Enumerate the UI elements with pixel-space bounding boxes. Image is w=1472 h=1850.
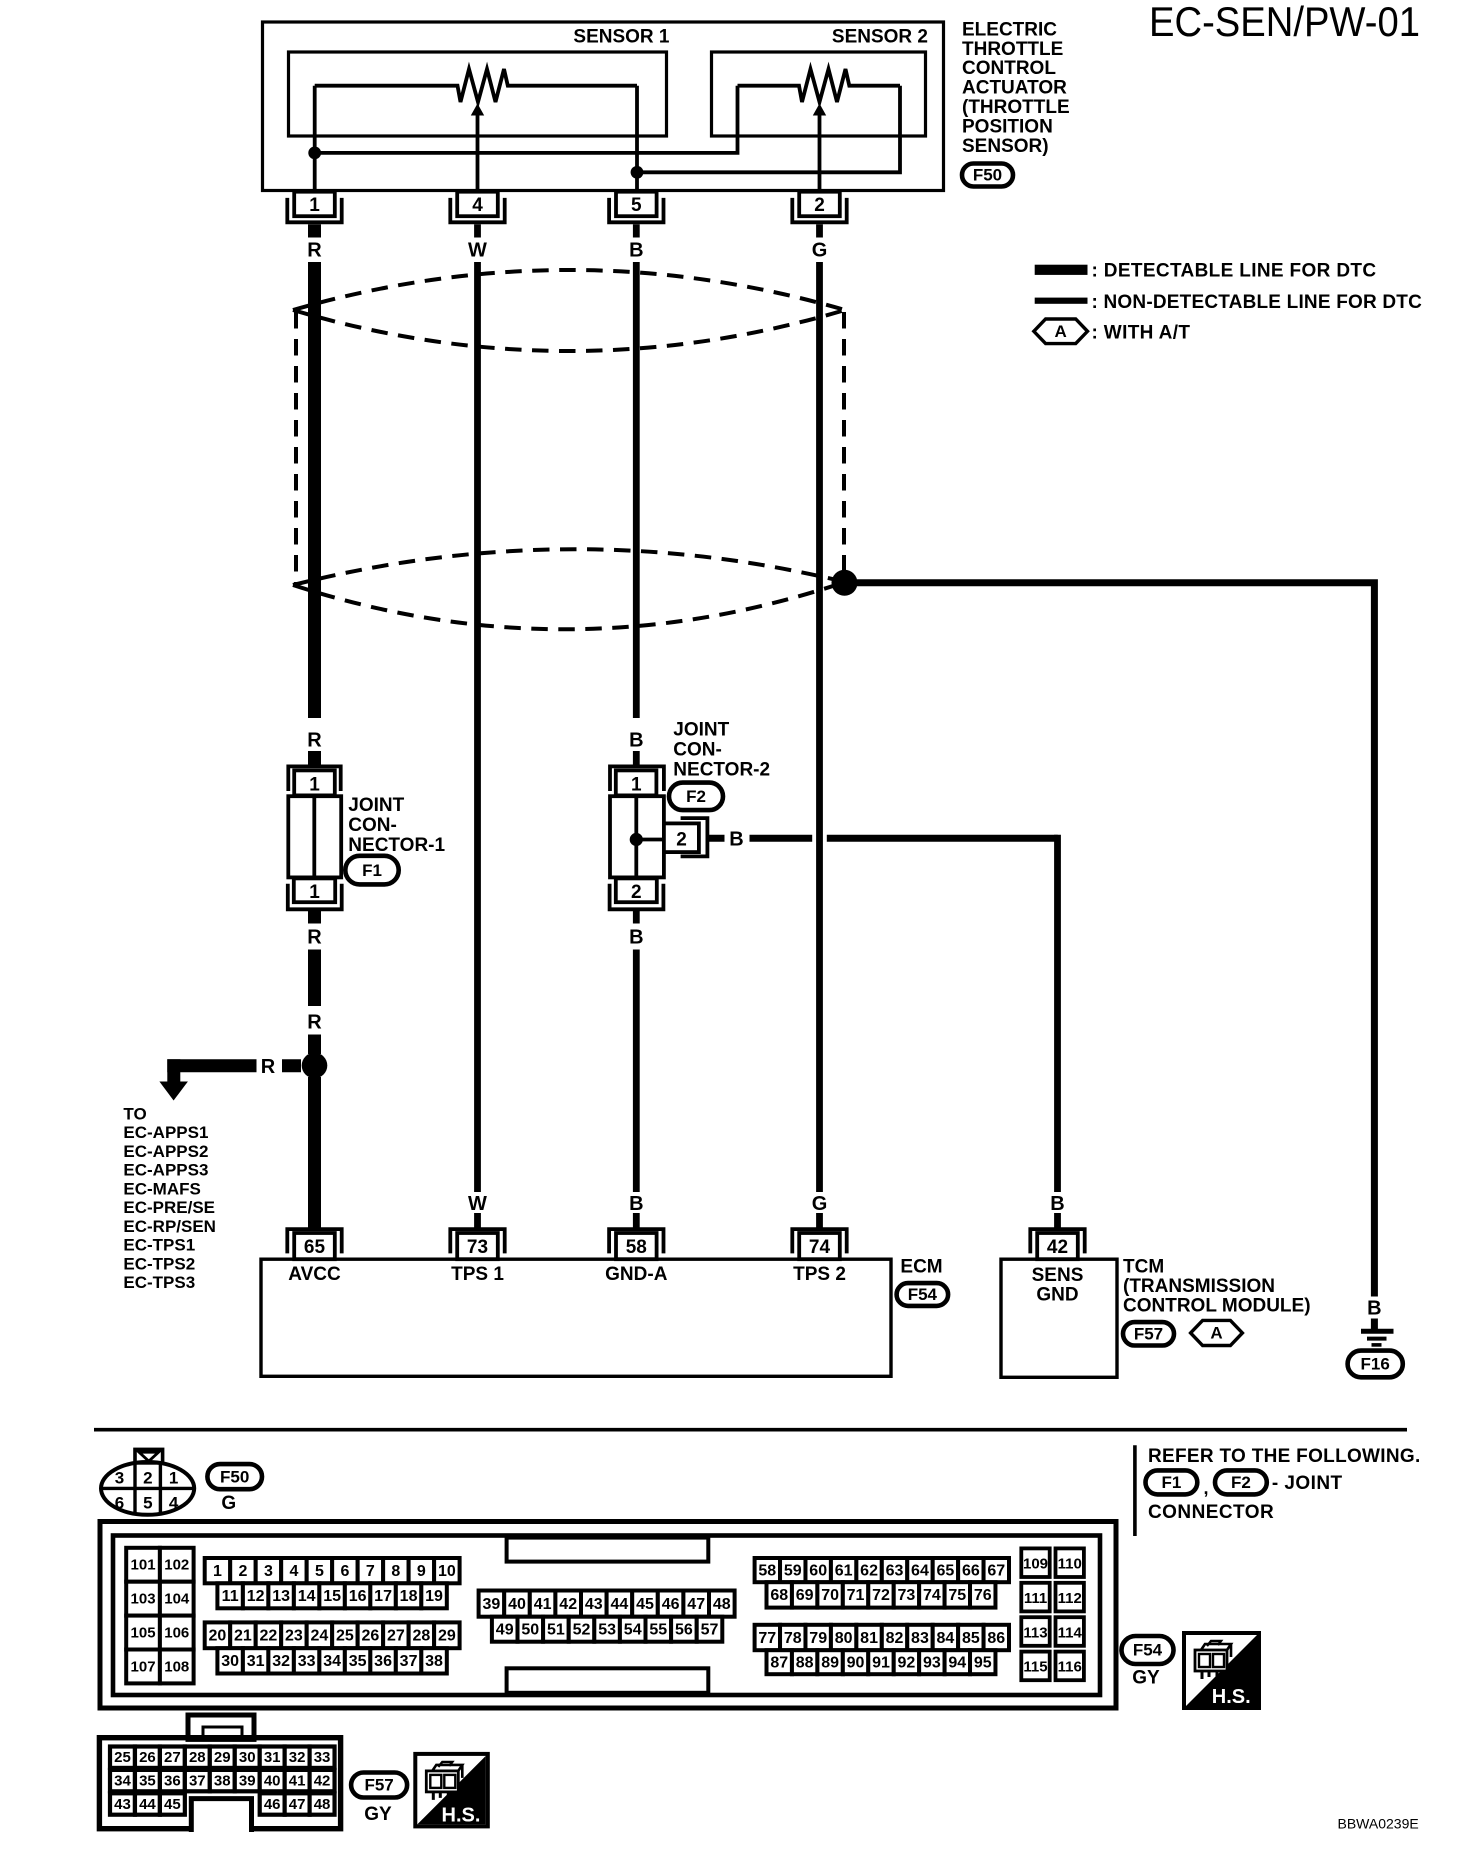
- svg-text:CONNECTOR: CONNECTOR: [1148, 1502, 1274, 1523]
- with A/T hexagon: [1191, 1320, 1243, 1345]
- F54 connector inner box: [113, 1536, 1100, 1696]
- svg-text:R: R: [307, 1011, 322, 1033]
- svg-text:4: 4: [169, 1493, 179, 1512]
- pin 65: [287, 1229, 341, 1253]
- svg-text:,: ,: [1204, 1478, 1209, 1498]
- svg-text:F1: F1: [1161, 1473, 1181, 1492]
- svg-text:SENSOR 1: SENSOR 1: [573, 27, 670, 48]
- F50 connector face: [135, 1449, 163, 1463]
- svg-text:NECTOR-2: NECTOR-2: [673, 759, 770, 780]
- svg-text:92: 92: [898, 1655, 916, 1672]
- wire B ground stub: [1371, 1319, 1378, 1332]
- svg-text:EC-RP/SEN: EC-RP/SEN: [123, 1217, 216, 1236]
- shield bottom ellipse: [293, 549, 845, 585]
- svg-text:EC-APPS2: EC-APPS2: [123, 1142, 208, 1161]
- svg-text:84: 84: [937, 1630, 955, 1647]
- svg-text:- JOINT: - JOINT: [1272, 1473, 1343, 1494]
- svg-text:F57: F57: [1134, 1325, 1163, 1344]
- svg-text:15: 15: [323, 1588, 341, 1605]
- joint connector-2 top bracket: [610, 766, 664, 791]
- connector ref F54 view: [1122, 1636, 1174, 1664]
- svg-text:R: R: [307, 927, 322, 949]
- joint connector-2 junction dot: [630, 833, 643, 846]
- svg-text:31: 31: [264, 1749, 281, 1766]
- svg-text:CON-: CON-: [673, 739, 722, 760]
- svg-text:45: 45: [636, 1596, 654, 1613]
- svg-text:47: 47: [687, 1596, 705, 1613]
- svg-text:B: B: [1050, 1193, 1064, 1215]
- svg-text:27: 27: [164, 1749, 181, 1766]
- svg-text:76: 76: [974, 1587, 992, 1604]
- svg-text:63: 63: [886, 1562, 904, 1579]
- svg-text:13: 13: [272, 1588, 290, 1605]
- svg-text:2: 2: [631, 882, 642, 903]
- wiper arrow sensor 1: [471, 104, 484, 116]
- connector ref F2 note: [1215, 1470, 1267, 1494]
- svg-text:5: 5: [143, 1493, 152, 1512]
- svg-text:25: 25: [114, 1749, 131, 1766]
- svg-text:G: G: [812, 1193, 828, 1215]
- svg-text:3: 3: [115, 1469, 124, 1488]
- svg-text:35: 35: [349, 1653, 367, 1670]
- svg-text:34: 34: [323, 1653, 341, 1670]
- svg-text:TO: TO: [123, 1104, 146, 1123]
- svg-text:CON-: CON-: [348, 815, 397, 836]
- F54 top notch: [507, 1538, 709, 1562]
- svg-text:A: A: [1055, 322, 1067, 341]
- electric throttle control actuator box: [263, 22, 944, 191]
- svg-text:82: 82: [886, 1630, 904, 1647]
- svg-text:8: 8: [391, 1563, 400, 1580]
- svg-text:F2: F2: [1231, 1473, 1251, 1492]
- F54 pins 49-57: [492, 1617, 518, 1642]
- joint connector-2 side bracket: [681, 818, 708, 856]
- svg-text:37: 37: [400, 1653, 418, 1670]
- svg-text:49: 49: [496, 1622, 514, 1639]
- svg-text:112: 112: [1058, 1590, 1082, 1607]
- svg-text:EC-TPS1: EC-TPS1: [123, 1236, 195, 1255]
- svg-text:41: 41: [289, 1773, 306, 1790]
- svg-text:68: 68: [770, 1587, 788, 1604]
- svg-text:EC-TPS3: EC-TPS3: [123, 1273, 195, 1292]
- svg-text:53: 53: [598, 1622, 616, 1639]
- svg-text:107: 107: [131, 1658, 156, 1675]
- svg-text:CONTROL MODULE): CONTROL MODULE): [1123, 1295, 1311, 1316]
- F54 pins 68-76: [767, 1582, 792, 1607]
- svg-text:74: 74: [809, 1237, 831, 1258]
- svg-text:44: 44: [611, 1596, 629, 1613]
- F57 bottom notch: [191, 1799, 251, 1832]
- svg-text:2: 2: [814, 195, 825, 216]
- svg-text:39: 39: [239, 1773, 256, 1790]
- wire node to sensor2 left: [315, 86, 738, 153]
- svg-text:10: 10: [438, 1563, 456, 1580]
- resistor sensor 1 (potentiometer track): [315, 69, 637, 102]
- svg-text:51: 51: [547, 1622, 565, 1639]
- svg-text:ACTUATOR: ACTUATOR: [962, 78, 1067, 99]
- pin 74: [792, 1229, 846, 1253]
- svg-text:106: 106: [164, 1625, 189, 1642]
- connector ref F57: [1123, 1322, 1174, 1345]
- svg-text:EC-PRE/SE: EC-PRE/SE: [123, 1198, 215, 1217]
- svg-text:73: 73: [467, 1237, 488, 1258]
- svg-text:H.S.: H.S.: [442, 1804, 481, 1826]
- svg-text:52: 52: [573, 1622, 591, 1639]
- svg-text:67: 67: [987, 1562, 1005, 1579]
- svg-text:CONTROL: CONTROL: [962, 58, 1056, 79]
- node R junction dot: [302, 1053, 328, 1079]
- legend A/T hexagon: [1034, 319, 1088, 344]
- svg-text:94: 94: [948, 1655, 966, 1672]
- svg-text:F50: F50: [973, 166, 1002, 185]
- harness view icon H.S. (F54): [1184, 1633, 1259, 1708]
- svg-text:43: 43: [114, 1796, 131, 1813]
- svg-text:73: 73: [898, 1587, 916, 1604]
- F57 connector body: [99, 1738, 340, 1829]
- svg-text:REFER TO THE FOLLOWING.: REFER TO THE FOLLOWING.: [1148, 1446, 1421, 1467]
- svg-text:89: 89: [821, 1655, 839, 1672]
- F57 pins 43-45: [110, 1793, 135, 1814]
- svg-text:A: A: [1210, 1324, 1222, 1343]
- svg-text:36: 36: [164, 1773, 181, 1790]
- connector ref F1: [345, 856, 398, 885]
- svg-text:27: 27: [387, 1628, 405, 1645]
- svg-text:: WITH A/T: : WITH A/T: [1092, 322, 1191, 343]
- svg-text:12: 12: [247, 1588, 265, 1605]
- svg-text:101: 101: [131, 1557, 156, 1574]
- svg-text:5: 5: [315, 1563, 324, 1580]
- svg-text:GY: GY: [364, 1804, 392, 1825]
- svg-text:42: 42: [559, 1596, 577, 1613]
- svg-text:4: 4: [472, 195, 483, 216]
- svg-text:90: 90: [847, 1655, 865, 1672]
- F54 pins 58-67: [755, 1558, 780, 1582]
- connector ref F1 note: [1146, 1470, 1198, 1494]
- svg-text:26: 26: [139, 1749, 156, 1766]
- svg-text:3: 3: [264, 1563, 273, 1580]
- svg-text:57: 57: [701, 1622, 719, 1639]
- svg-text:F54: F54: [908, 1285, 938, 1304]
- svg-text:1: 1: [309, 775, 320, 796]
- svg-text:R: R: [307, 729, 322, 751]
- svg-text:102: 102: [164, 1557, 189, 1574]
- pin 4: [450, 198, 504, 222]
- svg-text:48: 48: [713, 1596, 731, 1613]
- svg-text:95: 95: [974, 1655, 992, 1672]
- svg-text:29: 29: [438, 1628, 456, 1645]
- svg-text:28: 28: [412, 1628, 430, 1645]
- svg-text:17: 17: [374, 1588, 392, 1605]
- svg-text:38: 38: [214, 1773, 231, 1790]
- svg-text:5: 5: [631, 195, 642, 216]
- joint connector-2 pin 1 top: [616, 770, 657, 795]
- F54 pins 101-108: [126, 1548, 160, 1582]
- svg-text:91: 91: [872, 1655, 890, 1672]
- svg-text:THROTTLE: THROTTLE: [962, 39, 1063, 60]
- svg-text:EC-TPS2: EC-TPS2: [123, 1254, 195, 1273]
- svg-text:115: 115: [1023, 1659, 1047, 1676]
- legend thin bar: [1035, 298, 1088, 304]
- svg-text:JOINT: JOINT: [673, 719, 729, 740]
- svg-text:23: 23: [285, 1628, 303, 1645]
- svg-text:59: 59: [784, 1562, 802, 1579]
- wire pin5 riser: [635, 86, 639, 190]
- svg-text:2: 2: [676, 829, 687, 850]
- svg-text:2: 2: [238, 1563, 247, 1580]
- svg-text:B: B: [629, 927, 643, 949]
- connector ref F16: [1348, 1351, 1403, 1378]
- svg-text:69: 69: [796, 1587, 814, 1604]
- pin 58: [609, 1229, 663, 1253]
- joint connector-2 pin 2 bottom: [616, 878, 657, 902]
- pin 42: [1030, 1229, 1084, 1253]
- separator line: [94, 1428, 1407, 1432]
- wire R (AVCC) segments: [308, 224, 321, 237]
- svg-text:47: 47: [289, 1796, 306, 1813]
- svg-text:44: 44: [139, 1796, 156, 1813]
- wire R to arrow: [282, 1059, 301, 1072]
- F57 connector tab: [188, 1715, 254, 1739]
- svg-text:55: 55: [649, 1622, 667, 1639]
- F54 pins 30-38: [217, 1648, 242, 1673]
- F54 pins 1-10: [205, 1558, 230, 1583]
- svg-text:39: 39: [483, 1596, 501, 1613]
- svg-text:65: 65: [304, 1237, 326, 1258]
- svg-text:25: 25: [336, 1628, 354, 1645]
- svg-text:35: 35: [139, 1773, 156, 1790]
- joint connector-1 pin 1 top: [294, 770, 335, 795]
- F54 pins 20-29: [205, 1622, 230, 1648]
- node dot sensor1 left: [308, 147, 321, 160]
- connector ref F50 bottom: [207, 1464, 262, 1489]
- ground symbol: [1361, 1329, 1394, 1334]
- svg-text:POSITION: POSITION: [962, 116, 1053, 137]
- svg-text:28: 28: [189, 1749, 206, 1766]
- svg-text:20: 20: [209, 1628, 227, 1645]
- F54 pins 87-95: [767, 1650, 792, 1674]
- F54 pins 11-19: [217, 1583, 242, 1608]
- svg-text:42: 42: [314, 1773, 331, 1790]
- svg-text:60: 60: [809, 1562, 827, 1579]
- svg-text:TPS 2: TPS 2: [793, 1264, 846, 1285]
- shield left side: [294, 312, 298, 584]
- svg-text:104: 104: [164, 1591, 190, 1608]
- joint connector-2 bottom bracket: [610, 884, 664, 910]
- svg-text:9: 9: [417, 1563, 426, 1580]
- svg-text:R: R: [261, 1056, 276, 1078]
- svg-text:B: B: [629, 1193, 643, 1215]
- svg-text:46: 46: [662, 1596, 680, 1613]
- svg-text:: DETECTABLE LINE FOR DTC: : DETECTABLE LINE FOR DTC: [1092, 261, 1377, 282]
- svg-text:40: 40: [264, 1773, 281, 1790]
- svg-text:32: 32: [272, 1653, 290, 1670]
- svg-text:19: 19: [425, 1588, 443, 1605]
- svg-text:48: 48: [314, 1796, 331, 1813]
- svg-text:103: 103: [131, 1591, 156, 1608]
- svg-text:16: 16: [349, 1588, 367, 1605]
- svg-text:R: R: [307, 240, 322, 262]
- svg-text:65: 65: [937, 1562, 955, 1579]
- svg-text:108: 108: [164, 1658, 189, 1675]
- svg-text:AVCC: AVCC: [288, 1264, 341, 1285]
- svg-text:33: 33: [314, 1749, 331, 1766]
- svg-text:11: 11: [222, 1588, 239, 1605]
- connector ref F50: [962, 164, 1013, 187]
- svg-text:JOINT: JOINT: [348, 795, 404, 816]
- svg-text:42: 42: [1047, 1237, 1068, 1258]
- svg-text:116: 116: [1058, 1659, 1082, 1676]
- svg-text:NECTOR-1: NECTOR-1: [348, 835, 445, 856]
- svg-text:14: 14: [298, 1588, 316, 1605]
- svg-text:SENSOR 2: SENSOR 2: [832, 27, 928, 48]
- svg-text:EC-SEN/PW-01: EC-SEN/PW-01: [1149, 0, 1420, 45]
- ECM box: [261, 1259, 891, 1376]
- shield right side: [842, 312, 846, 570]
- svg-text:EC-MAFS: EC-MAFS: [123, 1179, 200, 1198]
- joint connector-2 body: [610, 796, 664, 877]
- wire W (TPS1) segments: [474, 224, 481, 237]
- sensor 2 inner box: [712, 52, 926, 136]
- svg-text:W: W: [468, 240, 487, 262]
- node dot sensor1 right: [631, 166, 644, 179]
- joint connector-1 bottom bracket: [288, 884, 342, 910]
- pin 73: [450, 1229, 504, 1253]
- svg-text:34: 34: [114, 1773, 131, 1790]
- svg-text:B: B: [629, 240, 643, 262]
- connector ref F54: [897, 1283, 949, 1306]
- svg-text:6: 6: [340, 1563, 349, 1580]
- joint connector-1 top bracket: [288, 766, 340, 791]
- F57 pins 34-42: [110, 1770, 135, 1791]
- svg-text:62: 62: [860, 1562, 878, 1579]
- wire G (TPS2) segments: [816, 224, 823, 237]
- svg-text:93: 93: [923, 1655, 941, 1672]
- shield top ellipse: [293, 270, 845, 310]
- svg-text:71: 71: [847, 1587, 865, 1604]
- svg-text:EC-APPS3: EC-APPS3: [123, 1161, 208, 1180]
- svg-text:1: 1: [631, 775, 642, 796]
- svg-text:43: 43: [585, 1596, 603, 1613]
- svg-text:88: 88: [796, 1655, 814, 1672]
- svg-text:24: 24: [311, 1628, 329, 1645]
- shield drain node dot: [832, 570, 858, 596]
- svg-text:SENS: SENS: [1032, 1265, 1084, 1286]
- svg-text:21: 21: [234, 1628, 252, 1645]
- svg-text:ECM: ECM: [900, 1256, 942, 1277]
- svg-text:F1: F1: [362, 861, 382, 880]
- svg-text:4: 4: [289, 1563, 298, 1580]
- svg-text:B: B: [629, 729, 643, 751]
- svg-text:40: 40: [508, 1596, 526, 1613]
- svg-text:113: 113: [1023, 1624, 1047, 1641]
- svg-text:66: 66: [962, 1562, 980, 1579]
- svg-text:83: 83: [911, 1630, 929, 1647]
- pin 1: [287, 198, 341, 222]
- svg-text:114: 114: [1058, 1624, 1083, 1641]
- wire B branch from JC2: [707, 835, 724, 842]
- svg-text:75: 75: [948, 1587, 966, 1604]
- svg-text:2: 2: [143, 1469, 152, 1488]
- svg-text:41: 41: [534, 1596, 552, 1613]
- svg-text:81: 81: [860, 1630, 878, 1647]
- svg-text:26: 26: [361, 1628, 379, 1645]
- svg-text:GND-A: GND-A: [605, 1264, 668, 1285]
- svg-text:78: 78: [784, 1630, 802, 1647]
- svg-text:85: 85: [962, 1630, 980, 1647]
- svg-text:64: 64: [911, 1562, 929, 1579]
- svg-text:80: 80: [835, 1630, 853, 1647]
- legend thick bar: [1035, 265, 1088, 275]
- svg-text:45: 45: [164, 1796, 181, 1813]
- harness view icon H.S. (F57): [415, 1754, 488, 1827]
- svg-text:74: 74: [923, 1587, 941, 1604]
- svg-text:GY: GY: [1132, 1668, 1160, 1689]
- svg-text:TCM: TCM: [1123, 1257, 1164, 1278]
- svg-text:30: 30: [221, 1653, 239, 1670]
- svg-text:1: 1: [169, 1469, 178, 1488]
- svg-text:54: 54: [624, 1622, 642, 1639]
- svg-text:79: 79: [809, 1630, 827, 1647]
- svg-text:38: 38: [425, 1653, 443, 1670]
- svg-text:31: 31: [247, 1653, 265, 1670]
- svg-text:F2: F2: [686, 787, 706, 806]
- svg-text:56: 56: [675, 1622, 693, 1639]
- svg-text:58: 58: [626, 1237, 647, 1258]
- joint connector-2 pin 2 side: [664, 823, 699, 852]
- resistor sensor 2 (potentiometer track): [738, 69, 901, 102]
- svg-text:ELECTRIC: ELECTRIC: [962, 19, 1057, 40]
- svg-text:1: 1: [213, 1563, 222, 1580]
- svg-text:F57: F57: [364, 1776, 393, 1795]
- svg-text:: NON-DETECTABLE LINE FOR DTC: : NON-DETECTABLE LINE FOR DTC: [1092, 292, 1423, 313]
- svg-text:30: 30: [239, 1749, 256, 1766]
- svg-text:TPS 1: TPS 1: [451, 1264, 504, 1285]
- refer divider line: [1133, 1445, 1137, 1536]
- svg-text:110: 110: [1058, 1556, 1082, 1573]
- svg-text:F54: F54: [1133, 1641, 1163, 1660]
- svg-text:46: 46: [264, 1796, 281, 1813]
- svg-text:50: 50: [521, 1622, 539, 1639]
- svg-text:EC-APPS1: EC-APPS1: [123, 1123, 208, 1142]
- joint connector-1 body: [288, 796, 341, 877]
- F54 connector outer box: [100, 1522, 1116, 1709]
- svg-text:70: 70: [821, 1587, 839, 1604]
- svg-text:B: B: [729, 828, 743, 850]
- svg-text:32: 32: [289, 1749, 306, 1766]
- connector ref F57 view: [351, 1773, 407, 1798]
- svg-text:37: 37: [189, 1773, 206, 1790]
- shield drain wire to ground: [857, 579, 1374, 1296]
- F57 pins 25-33: [110, 1747, 135, 1768]
- svg-text:109: 109: [1023, 1556, 1048, 1573]
- svg-text:22: 22: [260, 1628, 278, 1645]
- F57 pins 46-48: [260, 1793, 285, 1814]
- svg-text:G: G: [221, 1493, 236, 1514]
- svg-text:W: W: [468, 1193, 487, 1215]
- svg-text:36: 36: [374, 1653, 392, 1670]
- svg-text:(TRANSMISSION: (TRANSMISSION: [1123, 1276, 1275, 1297]
- svg-text:18: 18: [400, 1588, 418, 1605]
- connector ref F2: [669, 783, 723, 811]
- svg-text:H.S.: H.S.: [1212, 1686, 1251, 1708]
- arrowhead to EC pages: [159, 1082, 188, 1101]
- svg-text:29: 29: [214, 1749, 231, 1766]
- svg-text:87: 87: [770, 1655, 788, 1672]
- svg-text:GND: GND: [1036, 1284, 1078, 1305]
- svg-text:SENSOR): SENSOR): [962, 136, 1049, 157]
- wire node to sensor2 right: [637, 86, 900, 173]
- F54 pins 77-86: [755, 1625, 780, 1650]
